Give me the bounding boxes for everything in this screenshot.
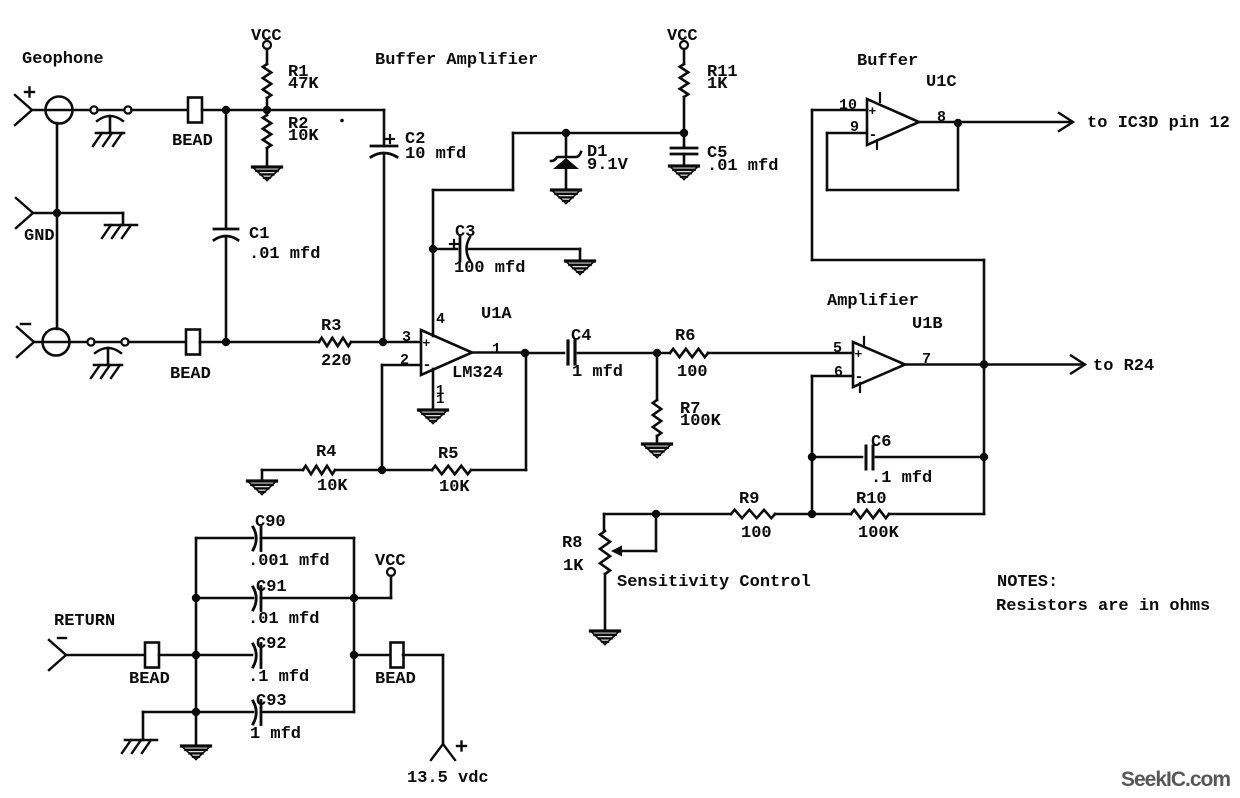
svg-text:47K: 47K	[288, 75, 319, 94]
svg-text:R9: R9	[739, 490, 759, 509]
ground	[643, 444, 672, 458]
text label C91	[256, 578, 287, 597]
node C6 right junction	[980, 453, 988, 461]
text NOTES heading	[997, 573, 1058, 592]
svg-text:Sensitivity Control: Sensitivity Control	[617, 573, 811, 592]
op-amp U1B	[853, 337, 905, 392]
svg-text:-: -	[423, 357, 432, 374]
text label 13.5 vdc	[407, 769, 489, 788]
capacitor C3 plus mark	[450, 240, 458, 248]
node U1A output junction	[521, 349, 529, 357]
node C1 top junction	[222, 106, 230, 114]
node open terminal	[124, 106, 131, 113]
svg-text:BEAD: BEAD	[172, 132, 213, 151]
wire	[335, 469, 432, 472]
text pin 6	[834, 364, 843, 381]
scan speck	[340, 119, 344, 123]
svg-text:R4: R4	[316, 443, 336, 462]
node GND junction	[53, 209, 61, 217]
text value 1 mfd	[250, 725, 301, 744]
resistor R11	[680, 64, 688, 97]
text value .1 mfd	[871, 469, 932, 488]
svg-text:Resistors are in ohms: Resistors are in ohms	[996, 597, 1210, 616]
svg-text:.01 mfd: .01 mfd	[249, 245, 320, 264]
svg-text:13.5 vdc: 13.5 vdc	[407, 769, 489, 788]
resistor R3	[319, 338, 351, 346]
wire	[32, 109, 90, 112]
wire	[876, 456, 984, 459]
wire U1B output	[905, 363, 984, 366]
node U1C output junction	[954, 119, 962, 127]
text value 10K	[439, 478, 470, 497]
wire	[403, 655, 443, 744]
svg-text:C3: C3	[455, 223, 475, 242]
node C3 junction	[429, 245, 437, 253]
svg-text:1: 1	[436, 392, 444, 408]
wire U1A output	[472, 351, 525, 354]
svg-text:.1 mfd: .1 mfd	[248, 668, 309, 687]
wire	[267, 110, 384, 146]
plus polarity mark at supply	[457, 742, 466, 751]
text value 100	[741, 524, 772, 543]
wire to R24 arrow	[984, 356, 1085, 374]
svg-text:1K: 1K	[563, 557, 584, 576]
potentiometer R8	[600, 531, 610, 574]
text value .01 mfd	[707, 157, 778, 176]
resistor R7	[653, 400, 661, 436]
capacitor C4	[568, 341, 575, 364]
svg-text:U1B: U1B	[912, 315, 943, 334]
ferrite bead (+ lead)	[188, 98, 202, 123]
wire	[351, 341, 421, 344]
text value .01 mfd	[248, 610, 319, 629]
shield capacitor to chassis ground	[93, 116, 124, 146]
svg-text:6: 6	[834, 364, 843, 381]
text label C90	[255, 513, 286, 532]
svg-text:C91: C91	[256, 578, 287, 597]
node C4/R6/R7 junction	[653, 349, 661, 357]
wire	[34, 341, 87, 344]
svg-text:SeekIC.com: SeekIC.com	[1121, 768, 1230, 791]
node R1/R2 junction	[263, 106, 271, 114]
svg-text:1 mfd: 1 mfd	[572, 363, 623, 382]
text pin 7	[922, 351, 931, 368]
node R8 wiper junction	[652, 510, 660, 518]
chassis ground at C93 branch	[122, 740, 157, 753]
wire	[683, 97, 686, 146]
node filter bus junction	[192, 651, 200, 659]
wire	[812, 456, 862, 459]
wire	[266, 98, 269, 115]
text label R1	[288, 63, 308, 82]
svg-text:100: 100	[741, 524, 772, 543]
text label Geophone	[22, 50, 104, 69]
text pin 9	[850, 119, 859, 136]
wire to IC3D arrow	[958, 113, 1073, 131]
wire	[196, 537, 253, 540]
shield capacitor to chassis ground	[91, 348, 122, 378]
text label R8	[562, 534, 582, 553]
wire	[196, 711, 253, 714]
svg-text:C92: C92	[256, 635, 287, 654]
node C93 left junction	[192, 708, 200, 716]
ground	[248, 481, 277, 495]
wire	[266, 148, 269, 167]
svg-text:Buffer: Buffer	[857, 52, 918, 71]
text pin 1	[492, 341, 501, 358]
svg-text:+: +	[855, 347, 863, 362]
text label to R24	[1093, 357, 1154, 376]
capacitor C93	[253, 701, 261, 725]
text pin 10	[839, 97, 857, 114]
svg-text:R10: R10	[856, 490, 887, 509]
text label C3	[455, 223, 475, 242]
text label R9	[739, 490, 759, 509]
input terminal GND (chevron)	[16, 198, 33, 228]
node C91 left junction	[192, 594, 200, 602]
ground	[552, 190, 581, 204]
svg-text:+: +	[423, 336, 431, 351]
wire pin 10 input	[812, 110, 984, 365]
wire	[656, 353, 659, 400]
wire	[132, 109, 189, 112]
svg-text:BEAD: BEAD	[375, 670, 416, 689]
svg-text:R3: R3	[321, 317, 341, 336]
wire	[469, 249, 580, 261]
wire	[578, 352, 670, 355]
text value 10K	[288, 127, 319, 146]
ground at filter bus bottom	[182, 746, 211, 760]
power terminal VCC	[375, 552, 406, 576]
svg-text:220: 220	[321, 352, 352, 371]
svg-text:5: 5	[833, 340, 842, 357]
wire	[159, 654, 252, 657]
svg-text:1 mfd: 1 mfd	[250, 725, 301, 744]
text label R3	[321, 317, 341, 336]
svg-text:3: 3	[402, 329, 411, 346]
svg-text:BEAD: BEAD	[129, 670, 170, 689]
svg-text:10: 10	[839, 97, 857, 114]
svg-text:100K: 100K	[680, 412, 722, 431]
text value 9.1V	[587, 156, 629, 175]
node D1 junction	[562, 129, 570, 137]
chassis ground at GND tap	[102, 225, 137, 238]
wire	[889, 365, 984, 515]
text pin 8	[937, 109, 946, 126]
node C92 right junction	[350, 651, 358, 659]
text label R6	[675, 327, 695, 346]
resistor R9	[731, 510, 775, 518]
svg-text:1K: 1K	[707, 75, 728, 94]
wire V+ rail	[433, 133, 684, 190]
text heading Buffer Amplifier	[375, 51, 538, 70]
wire	[565, 133, 568, 157]
text heading Amplifier	[827, 292, 919, 311]
capacitor C2	[371, 146, 397, 157]
wire	[708, 352, 853, 355]
text value 10 mfd	[405, 145, 466, 164]
svg-text:LM324: LM324	[452, 364, 503, 383]
svg-text:Buffer Amplifier: Buffer Amplifier	[375, 51, 538, 70]
wire	[604, 513, 731, 516]
wire	[261, 537, 354, 540]
text label BEAD	[375, 670, 416, 689]
text heading Buffer	[857, 52, 918, 71]
wire	[261, 597, 354, 600]
input terminal - (chevron)	[17, 327, 34, 357]
node R9/R10 junction	[808, 510, 816, 518]
text note line	[996, 597, 1210, 616]
svg-text:U1C: U1C	[926, 73, 957, 92]
text label C4	[571, 327, 591, 346]
text label C5	[707, 144, 727, 163]
wire	[383, 155, 386, 342]
text value 100K	[858, 524, 900, 543]
capacitor C5	[671, 146, 697, 166]
text pin 11	[436, 383, 444, 408]
svg-text:C93: C93	[256, 692, 287, 711]
svg-text:Geophone: Geophone	[22, 50, 104, 69]
svg-text:R5: R5	[438, 445, 458, 464]
text value 100K	[680, 412, 722, 431]
ground	[670, 166, 699, 180]
text label GND	[24, 227, 55, 246]
input terminal + (chevron)	[15, 95, 32, 125]
text pin 5	[833, 340, 842, 357]
wire	[95, 341, 122, 344]
text pin 3	[402, 329, 411, 346]
wire geophone center bus	[56, 123, 59, 329]
svg-text:.001 mfd: .001 mfd	[248, 552, 330, 571]
node open terminal	[87, 338, 94, 345]
wire	[143, 712, 196, 740]
text label R2	[288, 115, 308, 134]
wire	[33, 213, 123, 225]
svg-text:100K: 100K	[858, 524, 900, 543]
capacitor C91	[253, 587, 261, 611]
text label D1	[587, 143, 607, 162]
wire	[604, 574, 607, 631]
resistor R2	[263, 115, 271, 148]
svg-text:BEAD: BEAD	[170, 365, 211, 384]
text label C93	[256, 692, 287, 711]
wire	[266, 49, 269, 64]
svg-text:GND: GND	[24, 227, 55, 246]
svg-text:.1 mfd: .1 mfd	[871, 469, 932, 488]
ground	[591, 631, 620, 645]
wire	[202, 109, 267, 112]
power terminal VCC	[667, 27, 698, 49]
minus polarity mark at - input	[21, 323, 30, 325]
watermark SeekIC.com	[1121, 768, 1230, 791]
capacitor C3	[460, 237, 470, 261]
node R11/C5 junction	[680, 129, 688, 137]
svg-text:4: 4	[436, 311, 445, 328]
text label R10	[856, 490, 887, 509]
text value 100 mfd	[454, 259, 525, 278]
node R4/R5 junction	[378, 466, 386, 474]
text label R7	[680, 400, 700, 419]
text label R5	[438, 445, 458, 464]
text value 100	[677, 363, 708, 382]
wire	[200, 341, 226, 344]
svg-text:10 mfd: 10 mfd	[405, 145, 466, 164]
geophone coil circle (+ side)	[46, 97, 73, 124]
svg-text:2: 2	[400, 352, 409, 369]
svg-text:+: +	[869, 104, 877, 119]
svg-text:100 mfd: 100 mfd	[454, 259, 525, 278]
wire	[262, 470, 303, 481]
node C1 bottom junction	[222, 338, 230, 346]
node R3/C2 junction	[379, 338, 387, 346]
node C91 right junction	[350, 594, 358, 602]
text label U1B	[912, 315, 943, 334]
svg-text:C6: C6	[871, 433, 891, 452]
wire	[775, 513, 851, 516]
svg-text:NOTES:: NOTES:	[997, 573, 1058, 592]
resistor R10	[851, 510, 889, 518]
text label LM324	[452, 364, 503, 383]
wire	[354, 576, 391, 598]
svg-text:1: 1	[492, 341, 501, 358]
wiper arrow of R8	[611, 514, 656, 557]
capacitor C1	[214, 110, 238, 342]
resistor R1	[263, 64, 271, 98]
wire	[196, 597, 253, 600]
text label U1A	[481, 305, 512, 324]
text label R11	[707, 63, 738, 82]
text label C6	[871, 433, 891, 452]
svg-text:Amplifier: Amplifier	[827, 292, 919, 311]
svg-text:9.1V: 9.1V	[587, 156, 629, 175]
node open terminal	[90, 106, 97, 113]
svg-text:8: 8	[937, 109, 946, 126]
wire	[261, 711, 354, 714]
svg-text:to IC3D pin 12: to IC3D pin 12	[1087, 114, 1230, 133]
resistor R6	[670, 349, 708, 357]
ferrite bead (- lead)	[186, 330, 200, 355]
wire	[129, 341, 187, 344]
text value 1K	[563, 557, 584, 576]
node open terminal	[121, 338, 128, 345]
svg-text:RETURN: RETURN	[54, 612, 115, 631]
text label BEAD	[170, 365, 211, 384]
ground	[253, 167, 282, 181]
svg-text:10K: 10K	[288, 127, 319, 146]
text label Sensitivity Control	[617, 573, 811, 592]
op-amp U1C	[867, 93, 919, 149]
resistor R5	[432, 466, 471, 474]
ferrite bead (supply lead)	[391, 643, 404, 668]
op-amp U1A	[421, 330, 472, 375]
wire	[433, 248, 457, 251]
wire	[683, 49, 686, 64]
wire	[471, 353, 526, 470]
ferrite bead (return lead)	[145, 643, 159, 668]
text label RETURN	[54, 612, 115, 631]
text pin 2	[400, 352, 409, 369]
wire pin 2 input	[382, 365, 421, 470]
wire	[354, 654, 391, 657]
capacitor C90	[253, 527, 261, 551]
wire	[603, 514, 606, 531]
text value 220	[321, 352, 352, 371]
text label R4	[316, 443, 336, 462]
wire	[98, 109, 125, 112]
text value 10K	[317, 477, 348, 496]
text label U1C	[926, 73, 957, 92]
wire pin 9 feedback	[827, 123, 958, 190]
text label C2	[405, 130, 425, 149]
ground	[419, 410, 448, 424]
svg-text:R6: R6	[675, 327, 695, 346]
text value 1 mfd	[572, 363, 623, 382]
text label C92	[256, 635, 287, 654]
capacitor C2 plus mark	[386, 135, 394, 143]
wire	[66, 654, 145, 657]
input terminal RETURN (chevron)	[49, 640, 66, 670]
text value 47K	[288, 75, 319, 94]
svg-text:to R24: to R24	[1093, 357, 1154, 376]
text value .1 mfd	[248, 668, 309, 687]
wire	[656, 436, 659, 444]
node C6 left junction	[808, 453, 816, 461]
wire pin 6 input	[812, 376, 853, 514]
minus polarity mark at RETURN	[58, 637, 66, 639]
wire right filter bus	[353, 538, 356, 712]
text label BEAD	[129, 670, 170, 689]
text label BEAD	[172, 132, 213, 151]
wire U1C output	[919, 121, 958, 124]
text value 1K	[707, 75, 728, 94]
zener diode D1	[551, 152, 581, 190]
wire	[525, 352, 564, 355]
wire pin 11	[432, 369, 435, 410]
text label C1	[249, 225, 269, 244]
svg-text:R8: R8	[562, 534, 582, 553]
wire	[432, 190, 435, 336]
svg-text:10K: 10K	[439, 478, 470, 497]
svg-text:U1A: U1A	[481, 305, 512, 324]
text label to IC3D pin 12	[1087, 114, 1230, 133]
svg-text:C90: C90	[255, 513, 286, 532]
svg-text:10K: 10K	[317, 477, 348, 496]
svg-text:.01 mfd: .01 mfd	[248, 610, 319, 629]
ground	[566, 261, 595, 275]
power terminal VCC	[251, 27, 282, 49]
resistor R4	[303, 466, 335, 474]
text value .01 mfd	[249, 245, 320, 264]
text value .001 mfd	[248, 552, 330, 571]
svg-text:C1: C1	[249, 225, 269, 244]
svg-text:100: 100	[677, 363, 708, 382]
svg-text:C4: C4	[571, 327, 591, 346]
capacitor C92	[253, 644, 261, 668]
wire	[226, 341, 319, 344]
capacitor C6	[866, 446, 873, 469]
geophone coil circle (- side)	[43, 329, 70, 356]
svg-text:.01 mfd: .01 mfd	[707, 157, 778, 176]
text pin 4	[436, 311, 445, 328]
supply terminal chevron	[431, 744, 455, 760]
node U1B output junction	[980, 360, 988, 368]
wire left filter bus	[195, 538, 198, 746]
plus polarity mark at + input	[25, 88, 34, 97]
